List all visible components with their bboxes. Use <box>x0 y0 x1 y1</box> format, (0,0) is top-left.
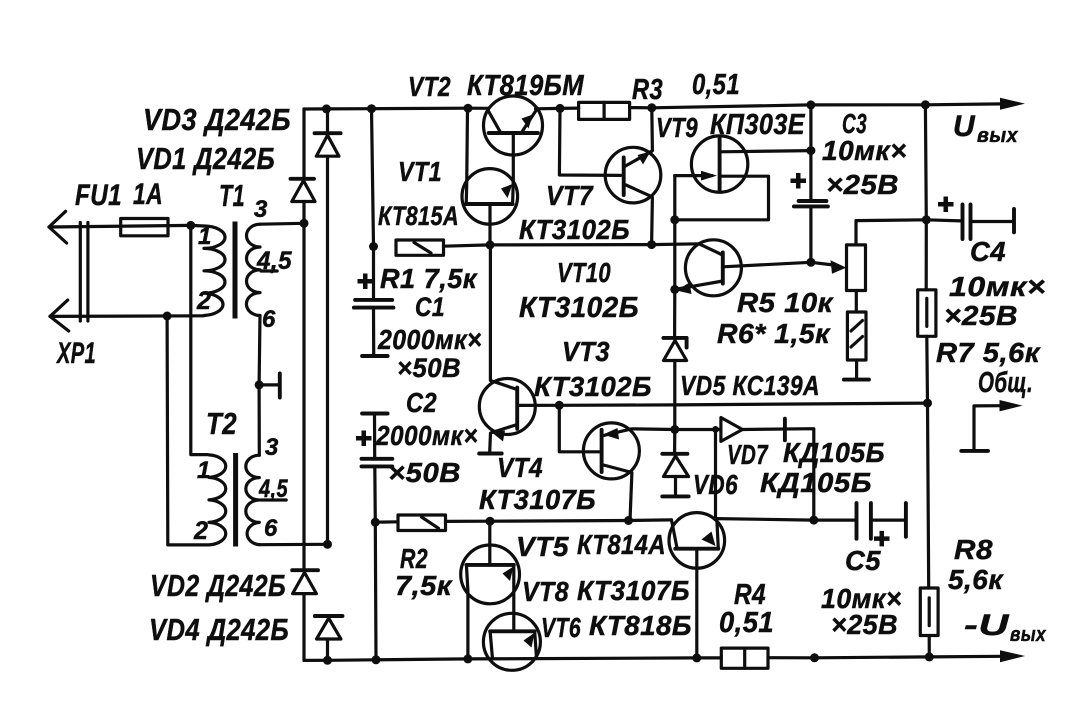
svg-text:КТ3102Б: КТ3102Б <box>519 292 639 324</box>
svg-text:VT10: VT10 <box>557 257 611 288</box>
wire VT9 source node down through VD5 <box>673 220 676 430</box>
label R4 value <box>719 607 774 639</box>
svg-text:2000мк×: 2000мк× <box>375 420 478 451</box>
label VT9 designator <box>656 112 698 143</box>
label VD6 type <box>760 467 872 498</box>
label output Obshch <box>978 367 1033 399</box>
transformer T1 primary winding <box>191 225 225 315</box>
svg-text:вых: вых <box>977 125 1018 147</box>
label T2 pin 3 <box>265 434 279 461</box>
label T1 designator <box>219 178 245 213</box>
label R1 designator and value <box>380 263 478 294</box>
capacitor C4 electrolytic <box>938 197 1014 240</box>
svg-text:7,5к: 7,5к <box>395 570 453 601</box>
potentiometer R5 <box>811 220 961 291</box>
label VT10 type <box>519 292 639 324</box>
label VD7 type <box>783 437 885 468</box>
label VT1 type <box>378 201 459 231</box>
svg-text:R8: R8 <box>954 534 993 565</box>
wire VT3 common line to R7 node <box>559 403 927 405</box>
svg-text:КТ815А: КТ815А <box>378 201 459 231</box>
label T2 pin 6 <box>264 515 278 542</box>
wire phase A vertical (VD1/VD2 column) <box>302 109 305 660</box>
svg-text:КТ3107Б: КТ3107Б <box>577 575 690 606</box>
svg-text:КТ818Б: КТ818Б <box>589 610 692 641</box>
connector XP1 lower arrow and wire <box>50 300 204 331</box>
label C2 value line1 <box>375 420 478 451</box>
wire XP1 lower to T2 primary pin2 <box>167 316 208 545</box>
label VD7 designator <box>727 439 769 470</box>
svg-text:3: 3 <box>254 196 268 223</box>
label output Uvyh <box>953 110 1018 147</box>
svg-text:VD5 КС139А: VD5 КС139А <box>680 370 820 401</box>
output Obshch arrow symbol with chassis bar <box>961 400 1022 451</box>
svg-text:Т2: Т2 <box>206 406 237 441</box>
resistor R6 select-at-test <box>844 291 869 380</box>
svg-text:×25В: ×25В <box>831 609 898 640</box>
label C4 value line1 <box>949 271 1046 302</box>
svg-text:VD4 Д242Б: VD4 Д242Б <box>149 612 289 647</box>
transistor VT6 <box>483 613 540 670</box>
svg-text:VD2 Д242Б: VD2 Д242Б <box>150 568 286 603</box>
diode VD4 <box>315 616 343 639</box>
svg-text:VD3 Д242Б: VD3 Д242Б <box>143 102 291 137</box>
resistor R4 <box>721 648 768 668</box>
label VT6 designator <box>541 612 581 643</box>
svg-text:VT7: VT7 <box>546 180 594 211</box>
connector XP1 upper arrow and wire <box>49 211 191 243</box>
resistor R3 <box>579 102 630 119</box>
label VT5 type <box>577 529 666 560</box>
svg-text:ХР1: ХР1 <box>56 337 96 370</box>
label C3 value line2 <box>826 169 899 200</box>
label VD3 designator and value <box>143 102 291 137</box>
svg-text:10мк×: 10мк× <box>822 135 907 166</box>
svg-text:2: 2 <box>196 287 211 315</box>
transistor VT2 <box>484 96 543 183</box>
wire negative bottom rail with -Uvyh arrow <box>304 650 1025 662</box>
wire phase B vertical (VD3/VD4 column) <box>326 109 329 660</box>
svg-text:КП303Е: КП303Е <box>710 109 806 141</box>
transformer T1 secondary tap 4,5 stub <box>261 269 277 272</box>
label VT3 type <box>534 371 652 402</box>
label T1 pin 1 <box>198 223 212 250</box>
diode VD1 <box>291 179 316 202</box>
label R4 designator <box>734 579 766 611</box>
svg-text:КТ814А: КТ814А <box>577 529 666 560</box>
label XP1 designator <box>56 337 96 370</box>
label C2 value line2 <box>388 457 461 488</box>
svg-text:VT6: VT6 <box>541 612 581 643</box>
svg-text:VT5: VT5 <box>516 531 569 562</box>
wire positive top rail right segment with Uvyh arrow <box>536 98 1026 110</box>
svg-text:С5: С5 <box>845 545 881 576</box>
svg-text:КД105Б: КД105Б <box>783 437 885 468</box>
common tap chassis stub of transformer center <box>259 374 280 398</box>
svg-text:Т1: Т1 <box>219 178 245 213</box>
label C3 value line1 <box>822 135 907 166</box>
label VD4 designator and value <box>149 612 289 647</box>
svg-text:10мк×: 10мк× <box>949 271 1046 302</box>
transistor VT8 <box>461 521 520 659</box>
svg-text:-U: -U <box>964 609 1010 642</box>
label VT8 type <box>577 575 690 606</box>
svg-text:VD1 Д242Б: VD1 Д242Б <box>136 141 275 176</box>
svg-text:КТ819БМ: КТ819БМ <box>467 70 584 102</box>
svg-text:FU1: FU1 <box>75 179 122 212</box>
diode VD7 <box>675 418 814 521</box>
capacitor C5 electrolytic <box>814 503 906 546</box>
svg-text:VT9: VT9 <box>656 112 698 143</box>
label R8 designator <box>954 534 993 565</box>
label FU1 designator and value <box>75 178 163 212</box>
connector XP1 body double bars <box>80 223 88 322</box>
label VT4 type <box>479 484 596 515</box>
svg-text:R1 7,5к: R1 7,5к <box>380 263 478 294</box>
label VD2 designator and value <box>150 568 286 603</box>
label R2 value <box>395 570 453 601</box>
svg-text:1А: 1А <box>133 178 163 211</box>
label C1 designator <box>415 292 445 322</box>
svg-text:3: 3 <box>265 434 279 461</box>
svg-text:VT2: VT2 <box>408 71 451 102</box>
label T2 pin 1 <box>197 457 211 484</box>
svg-text:КТ3102Б: КТ3102Б <box>519 214 630 245</box>
svg-text:2000мк×: 2000мк× <box>377 324 482 355</box>
svg-text:2: 2 <box>193 517 208 545</box>
transformer T1 core <box>233 222 238 319</box>
transistor VT10 <box>675 240 811 296</box>
wire R2 row line <box>446 520 672 522</box>
label C2 designator <box>406 387 437 418</box>
label C1 value line1 <box>377 324 482 355</box>
label R7 designator and value <box>936 337 1041 368</box>
svg-text:С2: С2 <box>406 387 437 418</box>
label C5 value line1 <box>821 583 902 614</box>
svg-text:КТ3102Б: КТ3102Б <box>534 371 652 402</box>
label C3 designator <box>842 108 867 139</box>
svg-text:VT3: VT3 <box>562 336 610 367</box>
capacitor C2 electrolytic <box>356 414 392 660</box>
transistor VT1 <box>462 108 518 245</box>
svg-text:VD6: VD6 <box>693 469 738 500</box>
label output minus Uvyh <box>964 609 1046 646</box>
wire R1 row line <box>444 244 700 246</box>
svg-text:×50В: ×50В <box>388 457 461 488</box>
label VT10 designator <box>557 257 611 288</box>
label VD5 designator and type <box>680 370 820 401</box>
label VT1 designator <box>398 156 442 187</box>
svg-text:КД105Б: КД105Б <box>760 467 872 498</box>
resistor R7 <box>918 105 936 403</box>
fuse FU1 <box>121 219 168 236</box>
label T1 pin 6 <box>262 306 276 333</box>
label T2 pin 4,5 <box>258 475 288 503</box>
svg-text:VD7: VD7 <box>727 439 769 470</box>
svg-text:6: 6 <box>264 515 278 542</box>
svg-text:×25В: ×25В <box>944 300 1018 331</box>
svg-text:4,5: 4,5 <box>258 475 288 503</box>
transformer T2 secondary tap 4,5 stub <box>261 498 286 501</box>
capacitor C3 electrolytic <box>791 105 828 262</box>
svg-text:С1: С1 <box>415 292 445 322</box>
label C1 value line2 <box>397 353 461 383</box>
label VT8 designator <box>522 576 569 607</box>
label R2 designator <box>400 543 428 574</box>
diode VD6 <box>662 430 688 497</box>
label VD6 designator <box>693 469 738 500</box>
transistor VT5 <box>669 429 814 658</box>
transistor VT7 <box>559 108 660 245</box>
svg-text:вых: вых <box>1010 624 1046 646</box>
label VT5 designator <box>516 531 569 562</box>
label VT4 designator <box>497 452 543 483</box>
label VT2 designator <box>408 71 451 102</box>
resistor R2 <box>375 515 445 531</box>
svg-text:×25В: ×25В <box>826 169 899 200</box>
svg-text:R5 10к: R5 10к <box>737 287 834 318</box>
svg-text:1: 1 <box>198 223 212 250</box>
wire positive top rail left segment <box>304 107 489 111</box>
svg-text:R3: R3 <box>632 74 663 106</box>
svg-text:КТ3107Б: КТ3107Б <box>479 484 596 515</box>
svg-text:U: U <box>953 110 976 143</box>
label VT7 type <box>519 214 630 245</box>
svg-text:0,51: 0,51 <box>719 607 774 639</box>
label C4 designator <box>970 236 1006 267</box>
label VT7 designator <box>546 180 594 211</box>
svg-text:VT1: VT1 <box>398 156 442 187</box>
label T1 pin 2 <box>196 287 211 315</box>
label VD1 designator and value <box>136 141 275 176</box>
resistor R8 <box>920 403 938 657</box>
svg-text:1: 1 <box>197 457 211 484</box>
label R3 value <box>692 69 740 101</box>
svg-text:С4: С4 <box>970 236 1006 267</box>
label C5 value line2 <box>831 609 898 640</box>
transistor VT9 field effect <box>675 136 811 220</box>
capacitor C1 electrolytic <box>354 109 394 356</box>
label R6 designator and value <box>717 318 831 349</box>
transformer T2 core <box>233 453 238 547</box>
label C5 designator <box>845 545 881 576</box>
svg-text:R7 5,6к: R7 5,6к <box>936 337 1041 368</box>
svg-text:5,6к: 5,6к <box>948 564 1004 595</box>
label VT6 type <box>589 610 692 641</box>
label VT3 designator <box>562 336 610 367</box>
transformer T1 secondary winding <box>246 223 304 455</box>
label T1 pin 4,5 <box>256 247 293 275</box>
label T2 pin 2 <box>193 517 208 545</box>
label R8 value <box>948 564 1004 595</box>
svg-text:Общ.: Общ. <box>978 367 1033 399</box>
zener diode VD5 <box>663 338 686 361</box>
label R3 designator <box>632 74 663 106</box>
label R5 designator and value <box>737 287 834 318</box>
label T2 designator <box>206 406 237 441</box>
label T1 pin 3 <box>254 196 268 223</box>
transformer T2 primary winding <box>209 455 226 545</box>
svg-text:4,5: 4,5 <box>256 247 293 275</box>
diode VD2 <box>292 570 318 593</box>
label VT9 type <box>710 109 806 141</box>
diode VD3 <box>315 133 341 156</box>
svg-text:VT8: VT8 <box>522 576 569 607</box>
svg-text:×50В: ×50В <box>397 353 461 383</box>
transistor VT4 <box>559 405 675 520</box>
label VT2 type <box>467 70 584 102</box>
label C4 value line2 <box>944 300 1018 331</box>
svg-text:VT4: VT4 <box>497 452 543 483</box>
wire fuse node to T2 primary pin1 <box>191 225 208 454</box>
svg-text:0,51: 0,51 <box>692 69 740 101</box>
svg-text:R6* 1,5к: R6* 1,5к <box>717 318 831 349</box>
transformer T2 secondary winding <box>246 455 328 545</box>
resistor R1 <box>396 240 444 255</box>
transistor VT3 <box>479 245 559 454</box>
svg-text:6: 6 <box>262 306 276 333</box>
